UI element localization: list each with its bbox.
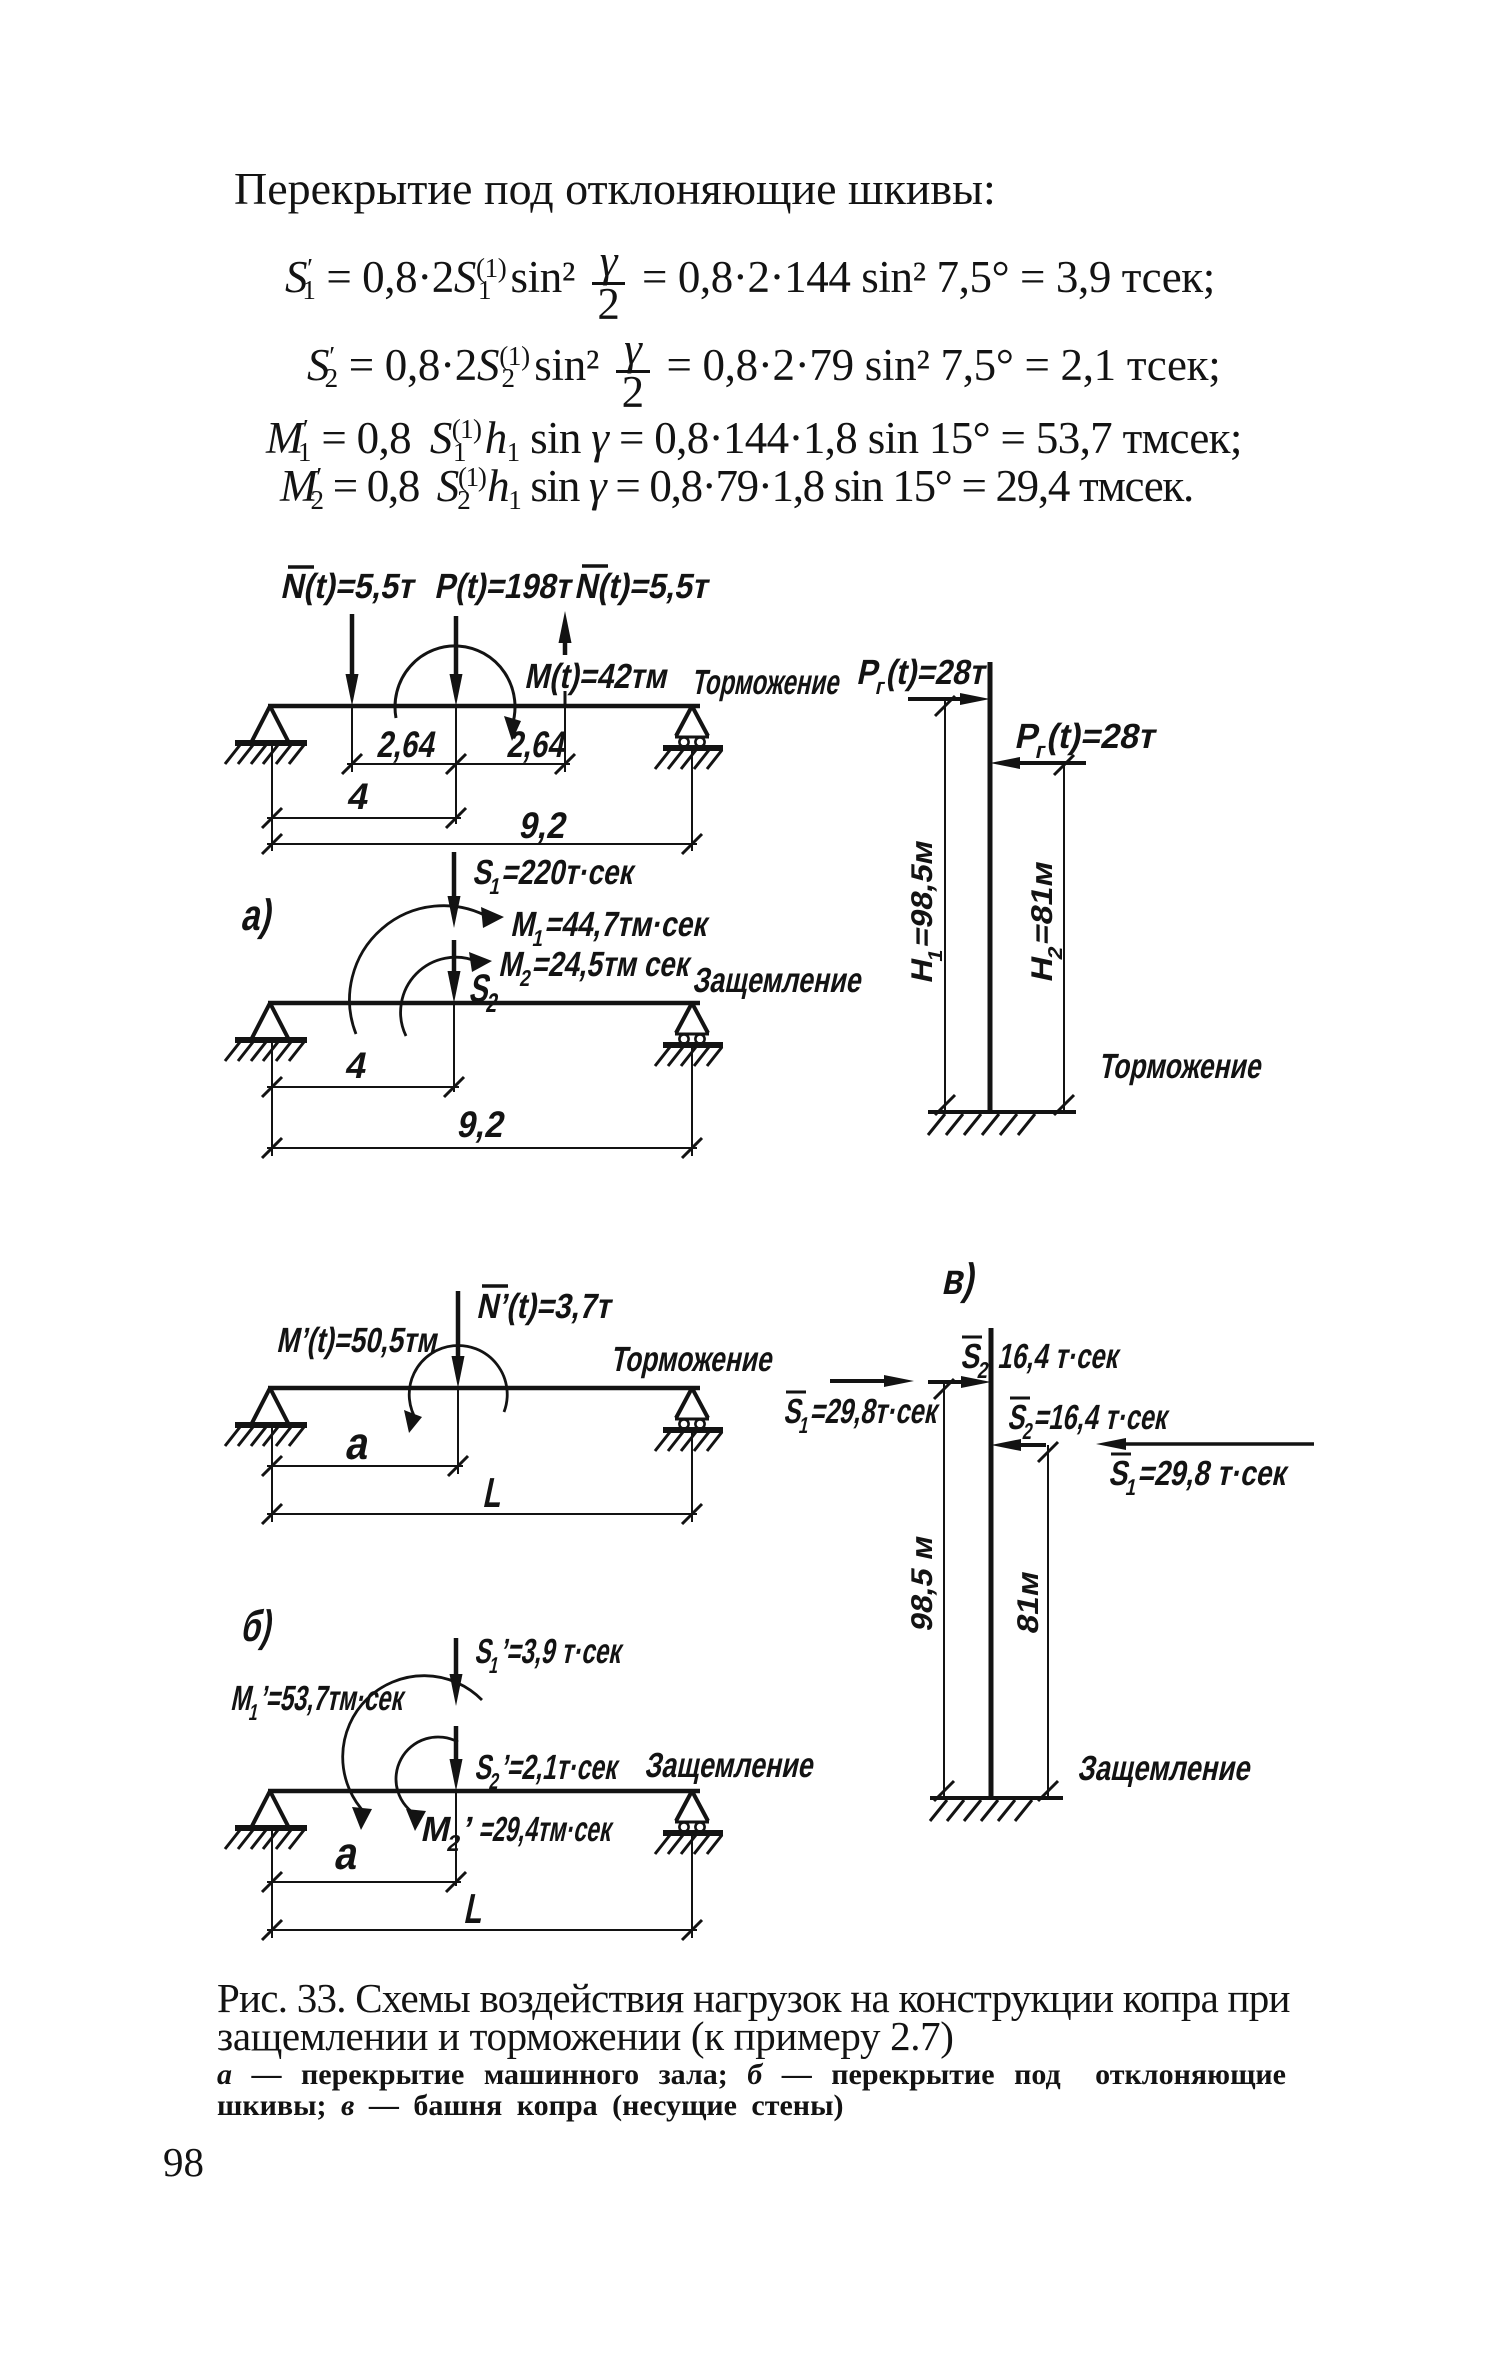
- svg-text:N(t)=5,5т: N(t)=5,5т: [572, 567, 713, 606]
- pinned support beam a2 left: [225, 1003, 307, 1061]
- extension lines beam b1: [272, 1388, 692, 1522]
- scheme label Защемление (beam b2): [642, 1746, 818, 1785]
- svg-text:S1​=29,8 т·сек: S1​=29,8 т·сек: [1105, 1454, 1292, 1500]
- scheme label Защемление (tower 2): [1075, 1749, 1255, 1788]
- load label S1=29,8т·сек (left): [780, 1392, 943, 1438]
- dimension 4 line (beam a2): [262, 1077, 464, 1097]
- svg-text:16,4 т·сек: 16,4 т·сек: [995, 1337, 1123, 1376]
- svg-text:б): б): [238, 1602, 278, 1650]
- moment arc M'(t) (beam b1): [404, 1346, 507, 1433]
- formula S'1: [285, 243, 1215, 322]
- force arrow S2 top (rightward): [928, 1376, 991, 1388]
- dim text a (beam b2): [331, 1827, 365, 1878]
- pinned support beam a1 left: [225, 706, 307, 764]
- dim text 9,2 (beam a2): [454, 1103, 509, 1145]
- caption line 1: [217, 1978, 1290, 2019]
- beam b1 line: [268, 1386, 700, 1391]
- dim text 9,2 (beam a1): [516, 804, 571, 846]
- svg-text:9,2: 9,2: [454, 1103, 509, 1145]
- group label в): [939, 1255, 981, 1303]
- dimension L line (beam b2): [262, 1920, 702, 1940]
- moment arc M1' (beam b2): [343, 1676, 482, 1830]
- moment label M1'=53,7тм·сек: [227, 1679, 409, 1725]
- formula M'2: [280, 464, 1193, 509]
- load label S1=29,8 т·сек (right): [1105, 1454, 1292, 1500]
- force arrow S2 lower (leftward): [991, 1439, 1046, 1451]
- ground line tower 2: [930, 1798, 1063, 1821]
- svg-text:Pг​(t)=28т: Pг​(t)=28т: [853, 653, 991, 699]
- svg-text:Защемление: Защемление: [642, 1746, 818, 1785]
- svg-text:4: 4: [342, 1044, 371, 1086]
- label 81м (rotated): [1012, 1568, 1045, 1637]
- svg-text:Торможение: Торможение: [689, 663, 844, 702]
- svg-text:а): а): [238, 891, 278, 939]
- title: Перекрытие под отклоняющие шкивы:: [234, 166, 996, 212]
- svg-text:S1​’=3,9 т·сек: S1​’=3,9 т·сек: [471, 1632, 627, 1678]
- load label S1'=3,9 т·сек: [471, 1632, 627, 1678]
- load label P(t)=198т: [432, 567, 576, 606]
- H2 label H2=81м (rotated): [1026, 858, 1067, 987]
- scheme label Защемление (beam a2): [690, 961, 866, 1000]
- beam a2 line: [268, 1001, 700, 1006]
- H1 label H1=98,5м (rotated): [906, 837, 947, 988]
- formula S'2: [307, 331, 1220, 410]
- group label б): [238, 1602, 278, 1650]
- dim text 4 (beam a1): [344, 775, 373, 817]
- dim text a (beam b1): [342, 1417, 376, 1468]
- svg-text:S2​’=2,1т·сек: S2​’=2,1т·сек: [471, 1748, 623, 1794]
- tower column (braking): [988, 662, 993, 1112]
- load label S1=220т·сек: [469, 853, 639, 899]
- moment label M2'=29,4тм·сек: [417, 1810, 617, 1856]
- load label N(t)=5,5т (right): [572, 566, 713, 606]
- moment arc M2' (beam b2): [396, 1737, 458, 1831]
- svg-text:9,2: 9,2: [516, 804, 571, 846]
- dimension a line (beam b1): [262, 1456, 468, 1476]
- pinned support beam b1 left: [225, 1388, 307, 1446]
- scheme label Торможение (beam b1): [608, 1340, 777, 1379]
- tower column (jamming): [989, 1328, 994, 1798]
- svg-text:2,64: 2,64: [504, 723, 570, 765]
- caption line 3: [217, 2060, 1286, 2090]
- force arrow N(t) down at x=352: [346, 614, 359, 706]
- svg-text:81м: 81м: [1012, 1568, 1045, 1637]
- force arrow Pг lower (leftward): [990, 757, 1086, 769]
- moment label M1=44,7тм·сек: [507, 905, 713, 951]
- force arrow S1 down: [448, 852, 461, 928]
- beam b2 line: [268, 1789, 700, 1794]
- dimension 2,64 / 2,64 line: [342, 754, 575, 774]
- svg-text:S1​=220т·сек: S1​=220т·сек: [469, 853, 639, 899]
- left dimension line 98,5м tower 2: [934, 1379, 954, 1801]
- dim text L (beam b1): [480, 1469, 508, 1515]
- moment label M'(t)=50,5тм: [274, 1321, 442, 1360]
- load label S2'=2,1т·сек: [471, 1748, 623, 1794]
- roller support beam b2 right: [655, 1791, 723, 1854]
- ground line tower 1: [928, 1112, 1076, 1135]
- svg-text:в): в): [939, 1255, 981, 1303]
- load label N'(t)=3,7т: [474, 1286, 616, 1326]
- dim text L (beam b2): [461, 1885, 489, 1931]
- dimension 9,2 line (beam a1): [262, 834, 702, 854]
- force arrow N(t) up at x=565: [559, 611, 572, 706]
- moment arc M2 (beam a2): [401, 952, 492, 1036]
- force arrow S2' down: [450, 1726, 463, 1791]
- load label 16,4 т·сек (right of tower): [995, 1337, 1123, 1376]
- pinned support beam b2 left: [225, 1791, 307, 1849]
- svg-text:Pг​(t)=28т: Pг​(t)=28т: [1011, 717, 1161, 763]
- svg-text:M(t)=42тм: M(t)=42тм: [522, 657, 672, 696]
- roller support beam a2 right: [655, 1003, 723, 1066]
- load label S2 (left of tower): [957, 1337, 996, 1383]
- svg-text:H2​=81м: H2​=81м: [1026, 858, 1067, 987]
- H2 dimension line: [1054, 755, 1074, 1115]
- svg-text:M2​’: M2​’: [417, 1810, 477, 1856]
- svg-text:4: 4: [344, 775, 373, 817]
- svg-text:H1​=98,5м: H1​=98,5м: [906, 837, 947, 988]
- svg-text:2,64: 2,64: [374, 723, 440, 765]
- svg-text:M1​=44,7тм·сек: M1​=44,7тм·сек: [507, 905, 713, 951]
- caption line 2: [217, 2016, 954, 2057]
- load label N(t)=5,5т (left): [278, 567, 419, 606]
- force arrow S1' down: [450, 1638, 463, 1706]
- dimension L line (beam b1): [262, 1504, 702, 1524]
- svg-text:98,5 м: 98,5 м: [906, 1532, 939, 1634]
- dimension a line (beam b2): [262, 1872, 466, 1892]
- force arrow Pг top (rightward): [908, 693, 990, 705]
- force arrow P(t) down at x=456: [450, 616, 463, 706]
- svg-text:Торможение: Торможение: [608, 1340, 777, 1379]
- beam a1 line: [268, 704, 700, 709]
- svg-text:N’(t)=3,7т: N’(t)=3,7т: [474, 1287, 616, 1326]
- force label Pг(t)=28т (lower): [1011, 717, 1161, 763]
- force arrow S2 down: [448, 940, 461, 1003]
- load label S2: [465, 965, 506, 1018]
- moment label M(t)=42тм: [522, 657, 672, 696]
- svg-text:M2​=24,5тм сек: M2​=24,5тм сек: [495, 945, 695, 991]
- dim text 2,64 (right): [504, 723, 570, 765]
- svg-text:L: L: [461, 1885, 489, 1931]
- svg-text:P(t)=198т: P(t)=198т: [432, 567, 576, 606]
- svg-text:Защемление: Защемление: [1075, 1749, 1255, 1788]
- roller support beam a1 right: [655, 706, 723, 769]
- extension lines beam b2: [272, 1791, 692, 1938]
- moment label M2=24,5тм сек: [495, 945, 695, 991]
- group label а): [238, 891, 278, 939]
- svg-text:L: L: [480, 1469, 508, 1515]
- right dimension line 81м tower 2: [1038, 1442, 1058, 1801]
- svg-text:a: a: [331, 1827, 365, 1878]
- scheme label Торможение (beam a1): [689, 663, 844, 702]
- load label S2=16,4 т·сек (lower): [1004, 1398, 1173, 1444]
- page number 98: [163, 2142, 204, 2183]
- svg-text:M’(t)=50,5тм: M’(t)=50,5тм: [274, 1321, 442, 1360]
- H1 dimension line: [935, 696, 955, 1115]
- scheme label Торможение (tower 1): [1096, 1047, 1266, 1086]
- formula M'1: [266, 416, 1242, 461]
- svg-text:N(t)=5,5т: N(t)=5,5т: [278, 567, 419, 606]
- svg-text:Защемление: Защемление: [690, 961, 866, 1000]
- dimension 4 line (beam a1): [262, 808, 466, 828]
- force arrow N' down: [452, 1291, 465, 1388]
- svg-text:Торможение: Торможение: [1096, 1047, 1266, 1086]
- moment arc M(t) on beam a1: [395, 646, 521, 741]
- extension lines beam a2: [272, 1003, 692, 1156]
- force label Pг(t)=28т (top): [853, 653, 991, 699]
- dimension 9,2 line (beam a2): [262, 1138, 702, 1158]
- annotation arrow S1 (long, leftward): [1096, 1438, 1314, 1450]
- label 98,5 м (rotated): [906, 1532, 939, 1634]
- extension lines beam a1: [272, 706, 692, 851]
- moment arc M1 (beam a2): [350, 906, 504, 1034]
- svg-text:a: a: [342, 1417, 376, 1468]
- dim text 4 (beam a2): [342, 1044, 371, 1086]
- roller support beam b1 right: [655, 1388, 723, 1451]
- svg-text:S2​=16,4 т·сек: S2​=16,4 т·сек: [1004, 1398, 1173, 1444]
- dim text 2,64 (left): [374, 723, 440, 765]
- svg-text:S1​=29,8т·сек: S1​=29,8т·сек: [780, 1392, 943, 1438]
- caption line 4: [217, 2091, 844, 2121]
- feed arrow S1 (rightward, left of tower): [830, 1375, 914, 1387]
- svg-text:=29,4тм·сек: =29,4тм·сек: [476, 1810, 616, 1849]
